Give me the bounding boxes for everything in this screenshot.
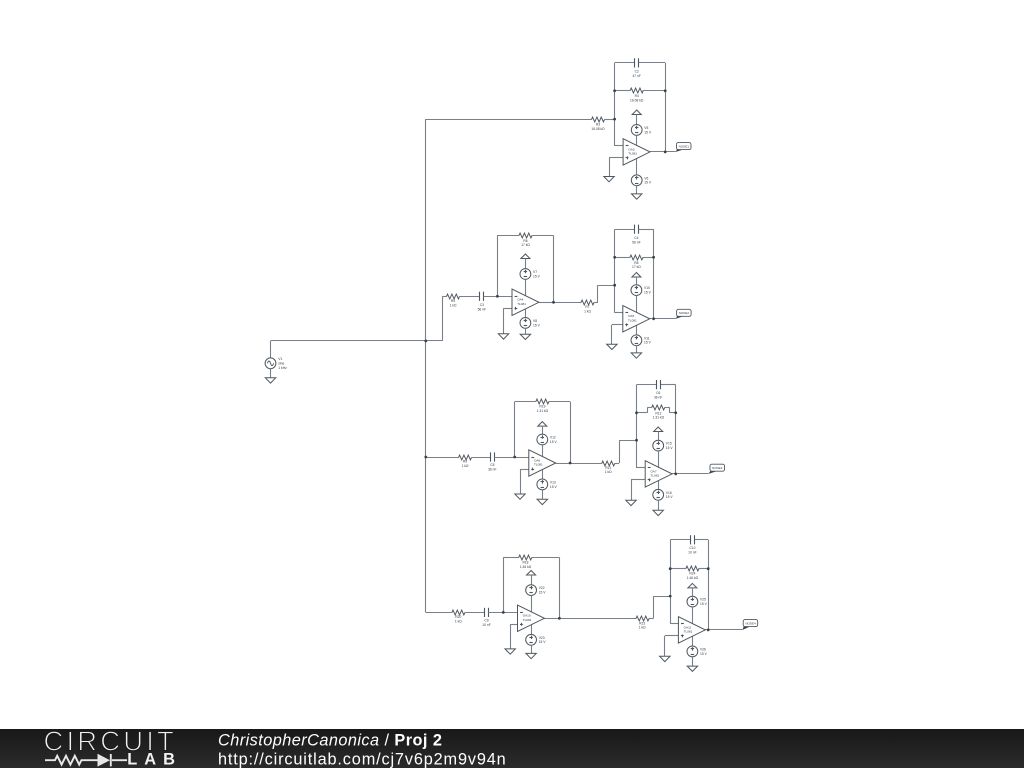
svg-text:C9: C9 [484,618,488,622]
svg-text:36 nF: 36 nF [488,468,496,472]
svg-text:R9: R9 [463,460,467,464]
svg-text:1 kΩ: 1 kΩ [639,626,646,630]
svg-text:R3: R3 [596,123,600,127]
svg-text:R19: R19 [539,405,545,409]
svg-text:NODE4: NODE4 [745,622,756,626]
svg-text:R6: R6 [523,239,527,243]
svg-text:1 kΩ: 1 kΩ [450,304,457,308]
svg-text:R8: R8 [634,261,638,265]
svg-text:15 V: 15 V [666,495,674,499]
svg-text:15 V: 15 V [644,341,652,345]
svg-text:15 V: 15 V [644,130,652,134]
svg-text:R4: R4 [635,94,639,98]
svg-text:C2: C2 [635,70,639,74]
svg-text:sine: sine [278,361,284,365]
svg-text:1 kHz: 1 kHz [278,366,287,370]
svg-text:15 V: 15 V [539,591,547,595]
svg-text:1.31 kΩ: 1.31 kΩ [537,409,549,413]
svg-text:R12: R12 [655,411,661,415]
svg-text:10 nF: 10 nF [482,623,490,627]
svg-text:56 nF: 56 nF [478,308,486,312]
svg-text:R11: R11 [605,466,611,470]
svg-text:http://circuitlab.com/cj7v6p2m: http://circuitlab.com/cj7v6p2m9v94n [218,750,507,768]
svg-text:TL081: TL081 [684,629,693,633]
svg-text:47 nF: 47 nF [632,74,640,78]
svg-text:TL081: TL081 [534,463,543,467]
svg-text:LAB: LAB [127,751,182,768]
svg-text:C10: C10 [689,546,695,550]
svg-text:NODE1: NODE1 [679,145,690,149]
svg-text:C5: C5 [490,463,494,467]
svg-text:1 kΩ: 1 kΩ [584,309,591,313]
svg-text:NODE2: NODE2 [679,311,690,315]
svg-text:1 kΩ: 1 kΩ [605,470,612,474]
svg-text:15 V: 15 V [539,640,547,644]
svg-text:15 V: 15 V [700,602,708,606]
svg-text:15 V: 15 V [644,291,652,295]
svg-text:56 nF: 56 nF [632,240,640,244]
svg-text:15 V: 15 V [644,181,652,185]
svg-text:36 nF: 36 nF [654,395,662,399]
svg-text:TL081: TL081 [650,473,659,477]
svg-text:15 V: 15 V [533,274,541,278]
svg-text:TL081: TL081 [523,618,532,622]
svg-text:C4: C4 [634,236,638,240]
svg-text:16.08 kΩ: 16.08 kΩ [591,127,605,131]
svg-text:16.08 kΩ: 16.08 kΩ [630,98,644,102]
svg-text:17 kΩ: 17 kΩ [521,243,530,247]
svg-text:R18: R18 [522,560,528,564]
svg-text:1.46 kΩ: 1.46 kΩ [687,576,699,580]
svg-text:15 V: 15 V [666,446,674,450]
svg-text:TL081: TL081 [517,302,526,306]
svg-text:15 V: 15 V [550,440,558,444]
svg-text:C3: C3 [480,303,484,307]
svg-text:10 nF: 10 nF [688,550,696,554]
svg-text:TL081: TL081 [628,318,637,322]
svg-text:17 kΩ: 17 kΩ [632,265,641,269]
svg-text:15 V: 15 V [550,485,558,489]
svg-text:R5: R5 [451,299,455,303]
svg-text:R20: R20 [455,615,461,619]
svg-text:NODE3: NODE3 [712,466,723,470]
svg-text:R7: R7 [585,305,589,309]
svg-text:1.31 kΩ: 1.31 kΩ [653,416,665,420]
svg-text:15 V: 15 V [533,323,541,327]
svg-text:ChristopherCanonica / Proj 2: ChristopherCanonica / Proj 2 [218,731,442,749]
svg-text:V1: V1 [278,357,282,361]
svg-text:R24: R24 [689,572,695,576]
svg-text:1 kΩ: 1 kΩ [455,620,462,624]
svg-text:15 V: 15 V [700,652,708,656]
svg-text:R23: R23 [639,621,645,625]
svg-text:C6: C6 [656,391,660,395]
svg-text:TL081: TL081 [628,151,637,155]
svg-text:1.46 kΩ: 1.46 kΩ [520,565,532,569]
svg-text:1 kΩ: 1 kΩ [462,464,469,468]
